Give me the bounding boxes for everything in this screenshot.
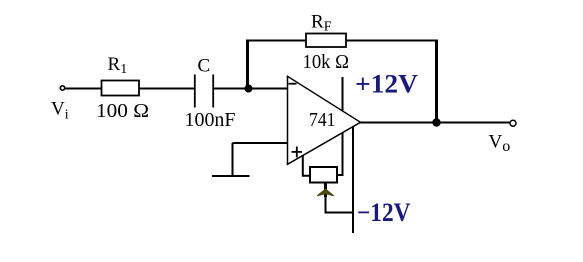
ground — [212, 143, 250, 176]
wire C to op-amp inverting input — [213, 88, 287, 90]
capacitor C — [195, 75, 213, 108]
wire R1 to C — [139, 88, 195, 90]
svg-text:100 Ω: 100 Ω — [96, 100, 149, 122]
svg-text:10k Ω: 10k Ω — [303, 51, 350, 73]
svg-text:+12V: +12V — [355, 70, 418, 99]
non-inverting input marker — [292, 147, 303, 158]
svg-text:−12V: −12V — [357, 198, 411, 227]
wire feedback top right — [346, 40, 438, 42]
wire feedback riser left — [246, 40, 249, 89]
wire feedback riser right — [435, 40, 438, 123]
output terminal Vo — [510, 120, 516, 126]
input terminal Vi — [60, 86, 64, 90]
wire input to R1 — [65, 88, 101, 90]
supply stub -12V — [352, 127, 354, 234]
svg-text:741: 741 — [309, 109, 336, 131]
wiper arrow stem — [324, 183, 327, 198]
resistor RF — [306, 34, 346, 48]
node input junction — [245, 85, 253, 93]
offset null right pin wire — [337, 133, 343, 176]
wire wiper to -12V rail — [326, 197, 354, 213]
wire feedback top left — [246, 40, 306, 42]
svg-text:100nF: 100nF — [185, 109, 236, 131]
wire output — [361, 122, 511, 124]
inverting input marker — [289, 83, 297, 85]
resistor R1 — [102, 81, 140, 96]
wiper arrowhead — [317, 189, 334, 196]
node output junction — [432, 118, 440, 126]
offset null left pin wire — [303, 155, 310, 176]
supply stub +12V — [342, 77, 344, 111]
wire non-inverting input — [233, 142, 288, 144]
potentiometer offset null — [310, 167, 337, 183]
op-amp U1 741 — [288, 76, 361, 164]
svg-text:C: C — [198, 56, 211, 77]
